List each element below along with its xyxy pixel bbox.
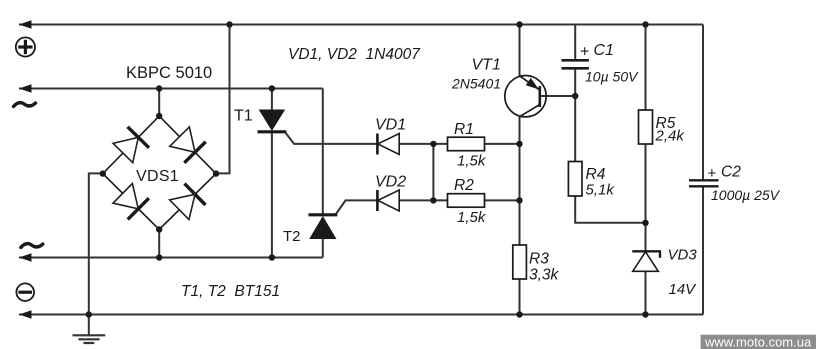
wire bridge bottom lead (158, 230, 160, 258)
wire T2 anode lead (322, 239, 324, 258)
terminal arrow AC1 (19, 84, 32, 93)
svg-text:1,5k: 1,5k (457, 209, 487, 226)
node VT1 base / C1 (572, 93, 578, 99)
svg-text:R2: R2 (454, 177, 474, 194)
plus terminal symbol (16, 37, 35, 56)
node VD3 on bottom rail (642, 311, 648, 317)
wire bottom rail (19, 314, 703, 316)
wire T2 gate to VD2 (336, 200, 377, 214)
svg-text:2,4k: 2,4k (655, 128, 686, 145)
node VD1 output (430, 141, 436, 147)
wire VT1 emitter lead (519, 25, 521, 77)
svg-text:5,1k: 5,1k (586, 182, 616, 199)
thyristor T1 (258, 110, 287, 132)
resistor R4 (568, 162, 582, 197)
wire top +V rail (19, 24, 703, 26)
terminal arrow - output (19, 310, 32, 319)
svg-text:1000µ 25V: 1000µ 25V (711, 187, 781, 203)
svg-text:T1, T2 BT151: T1, T2 BT151 (181, 283, 280, 300)
wire R1 to collector node (485, 143, 520, 145)
thyristor T2 (309, 215, 338, 239)
wire VD1 to R1 (399, 143, 447, 145)
watermark bar (701, 335, 816, 349)
resistor R2 (448, 194, 485, 208)
svg-text:VD3: VD3 (668, 247, 698, 264)
svg-text:VT1: VT1 (472, 57, 501, 74)
wire AC2 rail (19, 257, 323, 259)
node VT1 emitter on top rail (516, 21, 522, 27)
wire R4 to VD3 node (575, 196, 645, 223)
bridge rectifier VDS1 diamond (103, 116, 216, 230)
node T1 cathode on AC2 (269, 254, 275, 260)
svg-text:2N5401: 2N5401 (451, 76, 501, 92)
wire R3 to bottom rail (519, 279, 521, 315)
tilde AC1 symbol (14, 103, 36, 107)
node R1 to collector (516, 141, 522, 147)
wire R2 to collector node (485, 199, 520, 201)
svg-text:T2: T2 (283, 228, 301, 245)
svg-text:KBPC 5010: KBPC 5010 (126, 64, 212, 82)
svg-text:C1: C1 (594, 42, 614, 59)
wire bridge left lead (89, 173, 103, 314)
node bridge bottom vertex (156, 226, 162, 232)
bridge diode bottom-right (169, 184, 206, 221)
svg-text:3,3k: 3,3k (529, 267, 560, 284)
wire T1 gate to VD1 (285, 132, 377, 144)
wire AC1 rail (19, 88, 323, 90)
node bridge AC1 (156, 85, 162, 91)
svg-text:T1: T1 (234, 108, 253, 125)
node bridge top vertex (156, 113, 162, 119)
svg-text:C2: C2 (721, 164, 741, 181)
wire VD2 to R2 (399, 199, 447, 201)
svg-text:R4: R4 (586, 166, 606, 183)
zener diode VD3 (632, 251, 661, 271)
svg-text:10µ 50V: 10µ 50V (585, 69, 639, 85)
wire VT1 base lead (540, 95, 575, 97)
wire VT1 collector to R3 (519, 117, 521, 246)
node R5 on top rail (642, 21, 648, 27)
svg-text:1,5k: 1,5k (457, 153, 487, 170)
wire R5 to VD3 (645, 144, 647, 251)
bridge diode bottom-left (112, 183, 149, 220)
node ground on bottom rail (86, 311, 92, 317)
svg-text:VD1, VD2 1N4007: VD1, VD2 1N4007 (288, 46, 421, 63)
resistor R5 (639, 110, 653, 144)
node bridge left vertex (100, 170, 106, 176)
svg-text:www.moto.com.ua: www.moto.com.ua (704, 335, 812, 349)
diode VD2 (377, 190, 399, 211)
wire R5 top lead (645, 25, 647, 111)
wire bridge right lead (216, 25, 230, 174)
ground (88, 315, 90, 336)
bridge diode top-left (112, 127, 149, 164)
resistor R1 (448, 137, 485, 151)
resistor R3 (513, 245, 527, 279)
node R2 to collector (516, 197, 522, 203)
capacitor C2 (689, 180, 719, 186)
tilde AC2 symbol (21, 244, 43, 248)
diode VD1 (377, 134, 399, 155)
wire T1 cathode lead (271, 133, 273, 258)
wire joining VD1/VD2 nodes (432, 144, 434, 201)
node R4 / VD3 (642, 220, 648, 226)
wire C1 top lead (574, 25, 576, 61)
bridge diode top-right (169, 126, 206, 163)
node bridge+ to top rail (226, 21, 232, 27)
wire VD3 to bottom rail (645, 271, 647, 314)
svg-text:+: + (580, 44, 589, 61)
node T1 anode on AC1 (269, 85, 275, 91)
node bridge right vertex (213, 170, 219, 176)
wire T2 cathode lead (322, 89, 324, 215)
terminal arrow + output (19, 20, 32, 29)
minus terminal symbol (16, 283, 34, 301)
wire C2 bottom branch (702, 186, 704, 314)
svg-text:14V: 14V (669, 281, 698, 298)
wire C2 top branch (702, 25, 704, 181)
wire bridge top lead (158, 89, 160, 117)
svg-text:VD2: VD2 (375, 174, 406, 191)
svg-text:VD1: VD1 (375, 117, 406, 134)
svg-text:+: + (708, 165, 717, 182)
capacitor C1 (562, 60, 589, 68)
transistor VT1 (505, 76, 546, 117)
terminal arrow AC2 (19, 253, 32, 262)
svg-text:R3: R3 (529, 251, 549, 268)
node bridge AC2 (156, 254, 162, 260)
svg-text:VDS1: VDS1 (136, 168, 179, 185)
node R3 on bottom rail (516, 311, 522, 317)
svg-text:R1: R1 (454, 121, 474, 138)
node VD2 output (430, 197, 436, 203)
wire C1 bottom to R4 (574, 69, 576, 162)
wire T1 anode lead (271, 89, 273, 111)
